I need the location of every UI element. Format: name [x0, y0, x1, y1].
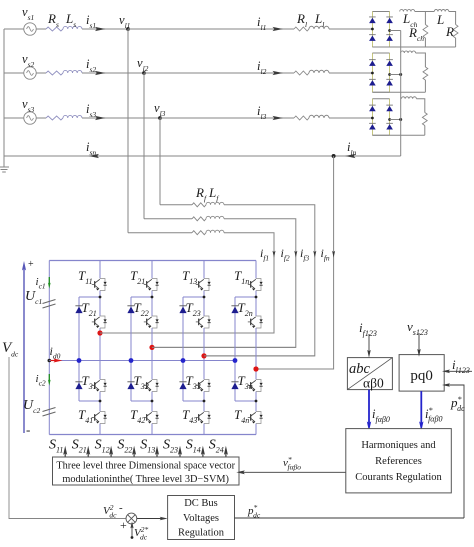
wire Rch branch top — [424, 12, 426, 25]
wire output leg 2 — [152, 346, 296, 348]
resistor Rf phase 3 — [192, 203, 206, 207]
node neutral clamp leg 3 — [181, 358, 186, 363]
neutral return vertical — [400, 31, 402, 157]
transistor T43 — [196, 412, 211, 424]
svg-text:Regulation: Regulation — [178, 528, 225, 539]
gate signal arrow S23 — [179, 452, 181, 458]
transistor T11 — [92, 279, 107, 291]
wire filter row 3 right — [204, 205, 315, 356]
svg-text:-: - — [119, 502, 123, 514]
node clamp bottom leg 1 — [99, 400, 102, 403]
current arrow i_l1 — [273, 27, 284, 31]
bridge 1 top rail — [372, 11, 389, 13]
bridge 2 left leg — [371, 53, 373, 92]
wire output leg 1 — [100, 332, 274, 334]
current arrow i_c1 — [48, 277, 50, 284]
inductor load2 — [401, 51, 416, 53]
svg-text:pq0: pq0 — [410, 368, 433, 384]
inductor Ls phase 2 — [63, 70, 82, 73]
diode D34 — [386, 124, 393, 129]
inverter top rail — [49, 260, 256, 262]
wire output leg 3 — [204, 355, 315, 357]
current arrow i_s1 — [95, 27, 106, 31]
wire phase 2 to node — [82, 72, 144, 74]
diode clamp upper T2n — [231, 307, 238, 314]
svg-text:V2*dc: V2*dc — [134, 525, 148, 542]
DC bus regulation box — [168, 496, 235, 540]
inverter leg 4 main wire — [255, 261, 257, 279]
wire bridge3 corner — [416, 99, 424, 113]
resistor Rf phase 1 — [192, 231, 206, 235]
Vdc arrow line — [23, 268, 25, 433]
wire Rch branch bottom — [424, 38, 426, 47]
wire phase 1 to node — [82, 28, 128, 30]
wire to bridge 3 — [329, 117, 372, 119]
svg-text:+: + — [120, 518, 127, 532]
diode D13 — [369, 36, 376, 41]
signal Vdc2* arrow — [131, 527, 133, 538]
wire clamp vertical leg 2 — [130, 297, 132, 401]
diode D31 — [369, 106, 376, 111]
transistor mid-upper leg 3 — [196, 316, 211, 328]
svg-text:+: + — [28, 259, 34, 270]
svg-text:R: R — [445, 24, 454, 39]
signal p*_dc feedback arrow — [448, 385, 464, 518]
transistor T4n — [248, 412, 263, 424]
wire Vdc feedback — [9, 357, 126, 519]
wire to bridge 2 — [329, 72, 372, 74]
transistor T42 — [144, 412, 159, 424]
node output leg 1 — [97, 330, 102, 335]
wire source to Rs phase 3 — [36, 117, 46, 119]
wire filter row 2 right — [152, 219, 296, 348]
transistor T41 — [92, 412, 107, 424]
wire clamp bottom leg 4 — [235, 400, 256, 402]
svg-text:Voltages: Voltages — [183, 513, 219, 524]
wire clamp vertical leg 4 — [234, 297, 236, 401]
resistor R — [453, 25, 458, 39]
transistor T1n — [248, 279, 263, 291]
wire filter row 2 left — [144, 218, 192, 220]
svg-text:DC Bus: DC Bus — [184, 498, 218, 509]
node neutral clamp leg 4 — [233, 358, 238, 363]
signal error arrow — [137, 518, 162, 520]
SVM modulation box — [53, 457, 240, 485]
wire R branch bottom — [455, 38, 457, 47]
signal i_f123 arrow — [368, 334, 370, 352]
wire phase 3 to node — [82, 117, 160, 119]
resistor load3 — [422, 113, 427, 126]
gate signal arrow S22 — [133, 452, 135, 458]
wire bridge2 corner — [416, 53, 426, 67]
current arrow i_f1 — [272, 251, 275, 258]
bridge 3 return junction — [399, 118, 402, 121]
transistor mid-upper leg 4 — [248, 316, 263, 328]
current arrow i_f3 — [313, 251, 316, 258]
node neutral clamp leg 1 — [77, 358, 82, 363]
wire clamp vertical leg 3 — [182, 297, 184, 401]
bridge 2 return node — [388, 73, 391, 76]
bridge 3 right leg — [389, 99, 391, 135]
signal i_l123 arrow — [448, 370, 472, 372]
ground — [0, 167, 9, 172]
transistor mid-upper leg 2 — [144, 316, 159, 328]
node output leg 3 — [201, 353, 206, 358]
svg-text:Three level three Dimensional: Three level three Dimensional space vect… — [56, 460, 235, 471]
node neutral clamp leg 2 — [129, 358, 134, 363]
wire bridge1 top right corner — [449, 12, 456, 25]
bridge 2 input node — [371, 72, 374, 75]
wire phase 1 left — [4, 28, 24, 30]
node i_fn junction — [332, 154, 336, 158]
gate signal arrow S13 — [156, 452, 158, 458]
resistor load2 — [423, 67, 428, 80]
wire to bridge 1 — [329, 28, 372, 30]
bridge 1 return wire — [390, 30, 401, 32]
inverter leg 2 main wire — [151, 261, 153, 279]
bridge 1 right leg — [389, 12, 391, 48]
current arrow i_s3 — [95, 116, 106, 120]
diode clamp lower T32 — [127, 383, 134, 390]
signal i_fab0 arrow — [368, 390, 370, 424]
current arrow i_f2 — [294, 251, 297, 258]
transistor mid-lower leg 2 — [144, 380, 159, 392]
bridge 3 bottom rail — [372, 134, 389, 136]
diode clamp upper T22 — [127, 307, 134, 314]
wire i_fn route — [256, 156, 334, 369]
diode clamp lower T33 — [179, 383, 186, 390]
node clamp top leg 4 — [255, 296, 258, 299]
resistor Rs phase 1 — [46, 27, 63, 31]
node capacitor midpoint — [48, 359, 52, 363]
inverter leg 3 main wire — [203, 261, 205, 279]
bridge 3 return node — [388, 118, 391, 121]
wire p*_dc output — [235, 517, 465, 519]
transistor T21 — [144, 279, 159, 291]
inductor Ll phase 1 — [309, 26, 329, 29]
diode clamp upper T21 — [75, 307, 82, 314]
bridge2 load bottom rail — [372, 91, 425, 93]
node clamp top leg 2 — [151, 296, 154, 299]
inductor Ll phase 3 — [309, 115, 329, 118]
wire clamp top leg 1 — [79, 296, 100, 298]
current arrow i_c2 — [48, 374, 50, 381]
diode D24 — [386, 80, 393, 85]
wire clamp vertical leg 1 — [78, 297, 80, 401]
wire load3 bottom — [424, 126, 426, 136]
node output leg 2 — [149, 345, 154, 350]
gate signal arrow S21 — [87, 452, 89, 458]
inductor L — [434, 10, 449, 12]
wire source to Rs phase 1 — [36, 28, 46, 30]
transistor mid-lower leg 1 — [92, 380, 107, 392]
inverter left edge — [48, 261, 50, 435]
wire load line 2 — [144, 72, 294, 74]
resistor Rl phase 3 — [294, 116, 309, 120]
node output leg 4 — [253, 366, 258, 371]
transistor T13 — [196, 279, 211, 291]
inductor load3 — [401, 97, 416, 99]
node clamp bottom leg 3 — [203, 400, 206, 403]
current arrow i_l2 — [273, 71, 284, 75]
wire source to Rs phase 2 — [36, 72, 46, 74]
inductor Lf phase 2 — [206, 216, 224, 218]
svg-text:References: References — [375, 456, 422, 467]
middle bus wire — [49, 360, 235, 362]
wire clamp bottom leg 2 — [131, 400, 152, 402]
inverter leg 1 main wire — [99, 261, 101, 279]
wire clamp bottom leg 1 — [79, 400, 100, 402]
wire load2 bottom — [424, 80, 426, 92]
inductor Lf phase 1 — [206, 230, 224, 232]
diode D22 — [386, 61, 393, 66]
node v_l3 — [158, 116, 162, 120]
bridge3 load bottom rail — [372, 134, 424, 136]
inverter bottom rail — [49, 434, 256, 436]
bridge 1 bottom rail — [372, 46, 389, 48]
node clamp top leg 1 — [99, 296, 102, 299]
resistor Rs phase 3 — [46, 116, 63, 120]
current arrow i_ln — [345, 154, 356, 158]
bridge 1 input node — [371, 28, 374, 31]
transistor mid-lower leg 3 — [196, 380, 211, 392]
resistor Rl phase 2 — [294, 71, 309, 75]
bridge 3 input node — [371, 117, 374, 120]
diode D23 — [369, 80, 376, 85]
inductor Lch — [400, 9, 415, 11]
source Vs2 — [24, 67, 36, 79]
inductor Ll phase 2 — [309, 70, 329, 73]
bridge 3 left leg — [371, 99, 373, 135]
diode D32 — [386, 106, 393, 111]
current arrow i_d0 — [51, 360, 56, 362]
bridge 3 return wire — [390, 119, 401, 121]
wire v_l3 vertical — [159, 118, 161, 205]
inductor Ls phase 1 — [63, 26, 82, 29]
diode clamp upper T23 — [179, 307, 186, 314]
node clamp bottom leg 4 — [255, 400, 258, 403]
node v_l1 — [126, 27, 130, 31]
source Vs3 — [24, 112, 36, 124]
wire phase 2 left — [4, 72, 24, 74]
resistor Rch — [423, 25, 428, 39]
abc-ab0 transform box — [347, 358, 392, 390]
bridge 2 right leg — [389, 53, 391, 92]
diode D12 — [386, 18, 393, 23]
inductor Lf phase 3 — [206, 202, 224, 204]
diode D11 — [369, 18, 376, 23]
bridge 2 return wire — [390, 74, 401, 76]
wire phase 3 left — [4, 117, 24, 119]
wire v_f reference — [243, 471, 346, 473]
wire v_l2 vertical — [143, 73, 145, 219]
svg-text:αβ0: αβ0 — [363, 376, 384, 391]
wire left vertical bus — [3, 29, 5, 167]
wire filter row 1 left — [128, 232, 192, 234]
transistor mid-lower leg 4 — [248, 380, 263, 392]
wire bridge1 top — [415, 11, 435, 13]
source Vs1 — [24, 23, 36, 35]
bridge 1 left leg — [371, 12, 373, 48]
signal i*_fab0 arrow — [420, 391, 422, 424]
capacitor Uc2 — [43, 408, 56, 412]
wire v_l1 vertical — [127, 29, 129, 233]
diode D21 — [369, 61, 376, 66]
pq0 box — [399, 355, 444, 392]
transistor mid-upper leg 1 — [92, 316, 107, 328]
wire filter row 1 right — [100, 233, 274, 333]
diode clamp lower T31 — [75, 383, 82, 390]
current arrow i_s2 — [95, 71, 106, 75]
bridge 2 top rail — [372, 52, 389, 54]
diode clamp lower T3n — [231, 383, 238, 390]
bridge 2 return junction — [399, 73, 402, 76]
current arrow i_l3 — [273, 116, 284, 120]
resistor Rl phase 1 — [294, 27, 309, 31]
node clamp bottom leg 2 — [151, 400, 154, 403]
resistor Rs phase 2 — [46, 71, 63, 75]
current arrow i_sn — [89, 154, 100, 158]
diode D33 — [369, 124, 376, 129]
wire load line 1 — [128, 28, 294, 30]
gate signal arrow S14 — [202, 452, 204, 458]
svg-text:Harmoniques and: Harmoniques and — [361, 440, 436, 451]
signal v_s123 arrow — [418, 333, 420, 351]
svg-text:Courants Regulation: Courants Regulation — [355, 472, 442, 483]
wire load line 3 — [160, 117, 294, 119]
bridge 1 return node — [388, 29, 391, 32]
capacitor Uc1 — [43, 300, 56, 304]
inductor Ls phase 3 — [63, 115, 82, 118]
wire clamp top leg 3 — [183, 296, 204, 298]
summing junction — [126, 513, 137, 524]
bridge1 load bottom rail — [372, 46, 455, 48]
wire filter row 3 left — [160, 204, 192, 206]
bridge 2 bottom rail — [372, 91, 389, 93]
svg-text:modulationinthe( Three level 3: modulationinthe( Three level 3D−SVM) — [62, 474, 229, 485]
resistor Rf phase 2 — [192, 217, 206, 221]
bridge 3 top rail — [372, 98, 389, 100]
neutral wire — [4, 155, 401, 157]
gate signal arrow S24 — [225, 452, 227, 458]
wire clamp top leg 4 — [235, 296, 256, 298]
wire clamp top leg 2 — [131, 296, 152, 298]
harmonics regulation box — [346, 429, 452, 493]
wire clamp bottom leg 3 — [183, 400, 204, 402]
node clamp top leg 3 — [203, 296, 206, 299]
svg-text:-: - — [26, 422, 30, 437]
gate signal arrow S11 — [64, 452, 66, 458]
svg-text:L: L — [436, 12, 444, 27]
diode D14 — [386, 36, 393, 41]
gate signal arrow S12 — [110, 452, 112, 458]
current arrow i_fn — [332, 251, 335, 258]
node v_l2 — [142, 71, 146, 75]
